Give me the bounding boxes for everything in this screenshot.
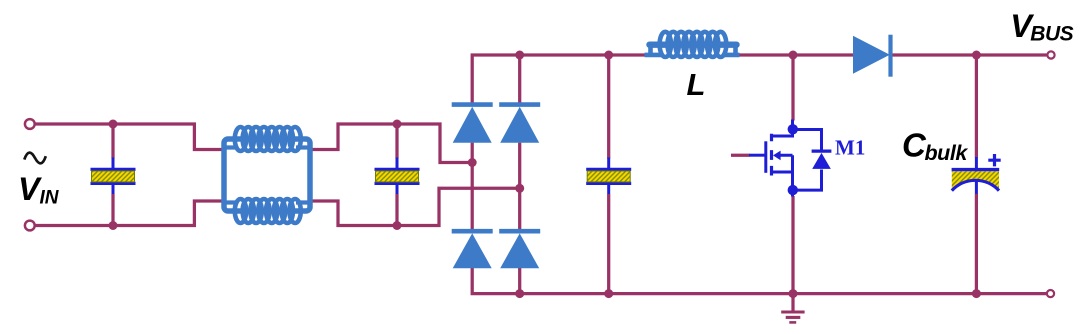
wire top rail from bridge left column to inductor: [472, 55, 645, 103]
common-mode choke top winding: [235, 127, 301, 151]
node junction dot C_bulk top rail: [972, 51, 981, 60]
svg-text:V: V: [18, 171, 42, 207]
common-mode choke bottom winding: [235, 199, 301, 223]
wire bridge right column middle: [518, 143, 521, 230]
svg-text:L: L: [687, 67, 706, 102]
wire choke bottom-right to bridge AC bottom input: [310, 188, 520, 225]
wire capacitor C3 top lead: [607, 55, 610, 159]
node junction dot C2 bottom: [393, 221, 402, 230]
terminal VBUS output: [1047, 51, 1054, 58]
common-mode choke body: [224, 139, 310, 211]
node junction dot bridge right bottom rail: [515, 289, 524, 298]
wire capacitor C3 bottom lead: [607, 194, 610, 294]
M1 source arrow: [773, 151, 781, 161]
transistor M1 (MOSFET): [749, 120, 822, 197]
M1 body diode: [812, 151, 832, 169]
terminal input top: [25, 119, 35, 129]
inductor L: [645, 32, 740, 57]
M1 drain node dot: [788, 124, 798, 134]
boost diode D5: [853, 35, 891, 77]
wire top rail from boost diode to VBUS terminal: [892, 53, 1047, 56]
bridge diode D1 top-left: [452, 105, 493, 143]
terminal input bottom: [25, 221, 35, 231]
wire bridge left column middle: [471, 143, 474, 230]
capacitor C2 (X-cap): [375, 158, 420, 195]
svg-text:IN: IN: [40, 187, 60, 208]
wire capacitor C2 bottom lead: [395, 194, 398, 226]
wire bridge right column bottom: [518, 268, 521, 294]
node junction dot C2 top: [393, 120, 402, 129]
wire C_bulk top lead: [975, 55, 978, 158]
node junction dot C3 bottom rail: [604, 289, 613, 298]
node junction dot bridge AC top: [468, 158, 477, 167]
wire bridge right column top: [518, 55, 521, 103]
node junction dot M1 bottom rail: [789, 289, 798, 298]
wire choke top-right to bridge AC top input: [310, 124, 470, 163]
svg-text:M1: M1: [835, 135, 865, 159]
node junction dot bridge AC bottom: [515, 184, 524, 193]
wire top rail between inductor and boost diode: [738, 53, 854, 56]
wire bottom-left from input terminal to choke: [34, 201, 224, 226]
wire top-left from input terminal to choke: [34, 124, 224, 150]
node junction dot C_bulk bottom rail: [972, 289, 981, 298]
node junction dot M1 top rail: [789, 51, 798, 60]
wire M1 source to bottom rail: [791, 196, 794, 294]
wire M1 drain from top rail: [791, 55, 794, 121]
capacitor C3 (after bridge): [586, 158, 631, 195]
capacitor C_bulk: [952, 154, 1001, 194]
capacitor C1 (X-cap): [91, 158, 136, 195]
svg-text:C: C: [902, 127, 927, 164]
node junction dot bridge right top rail: [515, 51, 524, 60]
terminal output bottom: [1047, 290, 1054, 297]
bridge diode D4 bottom-right: [499, 231, 540, 268]
bridge diode D3 bottom-left: [452, 231, 493, 268]
node junction dot C1 bottom: [109, 221, 118, 230]
node junction dot C1 top: [109, 120, 118, 129]
svg-text:bulk: bulk: [925, 141, 969, 165]
wire capacitor C1 bottom lead: [111, 194, 114, 226]
wire C_bulk bottom lead: [975, 194, 978, 294]
wire M1 gate stub: [731, 154, 750, 157]
wire bottom rail from bridge left column to output terminal: [472, 268, 1046, 294]
wire capacitor C1 top lead: [111, 124, 114, 159]
wire capacitor C2 top lead: [395, 124, 398, 159]
ground: [781, 294, 804, 323]
bridge diode D2 top-right: [499, 105, 540, 143]
node junction dot C3 top rail: [604, 51, 613, 60]
M1 source node dot: [788, 185, 798, 195]
AC tilde symbol: [24, 153, 46, 164]
svg-text:BUS: BUS: [1030, 23, 1073, 46]
